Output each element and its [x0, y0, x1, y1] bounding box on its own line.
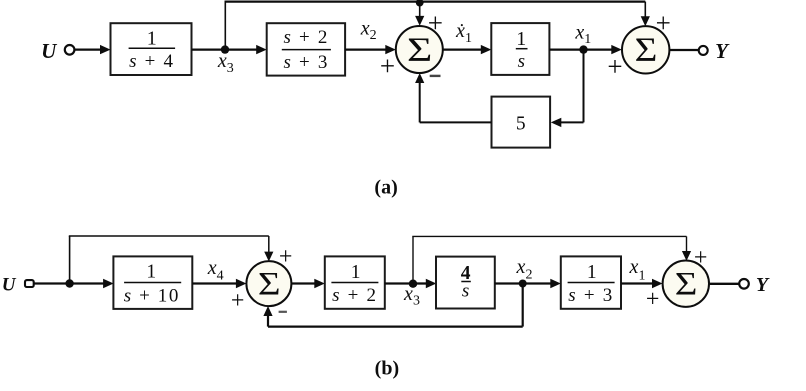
wire x1 down to feedback	[583, 50, 585, 123]
wire x2 to block H4	[523, 282, 552, 284]
wire riser up into S1b bottom	[267, 314, 269, 327]
top feedforward line (a)	[225, 1, 646, 3]
wire down into S2b	[686, 236, 688, 252]
top line 2 (b)	[412, 235, 686, 237]
wire G1 to node x3	[192, 48, 226, 50]
bottom feedback line (b)	[268, 326, 523, 328]
svg-text:1: 1	[587, 262, 597, 283]
wire riser up into S1 bottom	[419, 81, 421, 122]
block H2 1/(s+2)	[325, 256, 385, 308]
summer S1b	[246, 261, 291, 306]
svg-text:1: 1	[147, 28, 157, 50]
wire riser x3 to top line	[224, 2, 226, 50]
svg-text:+: +	[607, 52, 622, 82]
junction on top line	[416, 0, 424, 7]
svg-text:s + 4: s + 4	[129, 51, 175, 72]
wire H4 to S2b	[621, 282, 654, 284]
svg-text:1: 1	[351, 262, 361, 283]
svg-text:(a): (a)	[374, 176, 397, 198]
wire G4 to riser	[420, 121, 492, 123]
node x2 (b)	[519, 280, 527, 288]
wire S1 to block G3	[443, 48, 483, 50]
svg-text:s + 3: s + 3	[568, 285, 614, 306]
minus sign bottom of S1	[430, 75, 441, 77]
wire H2 to node x3	[385, 282, 413, 284]
svg-text:s + 3: s + 3	[283, 52, 329, 73]
svg-text:s + 2: s + 2	[283, 27, 329, 48]
wire x3 to block G2	[225, 48, 258, 50]
svg-text:1: 1	[146, 262, 156, 283]
wire H3 to node x2	[495, 282, 523, 284]
svg-text:+: +	[380, 51, 395, 81]
node U (b)	[65, 279, 73, 287]
svg-text:s + 2: s + 2	[332, 285, 378, 306]
wire x3 to block H3	[413, 282, 428, 284]
wire down into S1b	[268, 236, 270, 254]
block G3 1/s	[491, 23, 549, 75]
input terminal (a)	[65, 45, 75, 55]
output terminal (a)	[699, 46, 708, 55]
wire feedback into block G4	[560, 121, 584, 123]
wire U to node	[35, 282, 70, 284]
wire node to block H1	[70, 282, 105, 284]
svg-text:s: s	[462, 281, 469, 302]
svg-text:Y: Y	[715, 39, 730, 63]
svg-text:Σ: Σ	[675, 265, 698, 302]
block H3 4/s	[436, 257, 495, 309]
wire G3 to node x1	[549, 48, 583, 50]
svg-text:+: +	[231, 288, 245, 314]
block H1 1/(s+10)	[113, 256, 192, 309]
block H4 1/(s+3)	[561, 256, 621, 308]
svg-text:+: +	[646, 287, 660, 313]
svg-text:U: U	[2, 274, 17, 295]
wire G2 to summer S1	[345, 48, 387, 50]
wire riser x3 to top line 2 (b)	[412, 236, 414, 283]
wire riser U node to top line (b)	[69, 236, 71, 284]
wire S2b to output	[709, 283, 739, 285]
svg-text:s + 10: s + 10	[124, 285, 180, 306]
wire top line down into S1	[419, 2, 421, 18]
node x1 (a)	[579, 45, 587, 53]
svg-text:(b): (b)	[375, 358, 399, 380]
block G1 1/(s+4)	[111, 23, 192, 75]
svg-text:Σ: Σ	[258, 265, 281, 302]
wire top line down into S2	[644, 2, 646, 18]
node x3 (a)	[221, 45, 229, 53]
svg-text:5: 5	[516, 114, 526, 135]
wire H1 to S1b	[192, 282, 237, 284]
svg-text:U: U	[41, 39, 58, 63]
svg-text:+: +	[428, 8, 443, 38]
summer S2 (a)	[622, 26, 669, 73]
top line 1 (b)	[69, 235, 269, 237]
node x3 (b)	[409, 280, 417, 288]
svg-text:Y: Y	[756, 274, 770, 296]
summer S1 (a)	[396, 26, 443, 73]
minus sign bottom of S1b	[279, 311, 287, 313]
svg-text:1: 1	[516, 28, 526, 50]
wire x1 to summer S2	[584, 48, 613, 50]
svg-text:s: s	[518, 51, 525, 72]
wire S2 to output	[669, 49, 698, 51]
wire U to block G1	[75, 48, 101, 50]
wire x2 down to bottom feedback	[522, 284, 524, 327]
block G4 gain 5	[492, 97, 551, 148]
output terminal (b)	[739, 279, 749, 289]
input terminal (b)	[25, 280, 34, 287]
block G2 (s+2)/(s+3)	[267, 23, 345, 75]
svg-text:Σ: Σ	[635, 30, 658, 68]
wire S1b to block H2	[292, 282, 316, 284]
summer S2b	[663, 261, 709, 307]
